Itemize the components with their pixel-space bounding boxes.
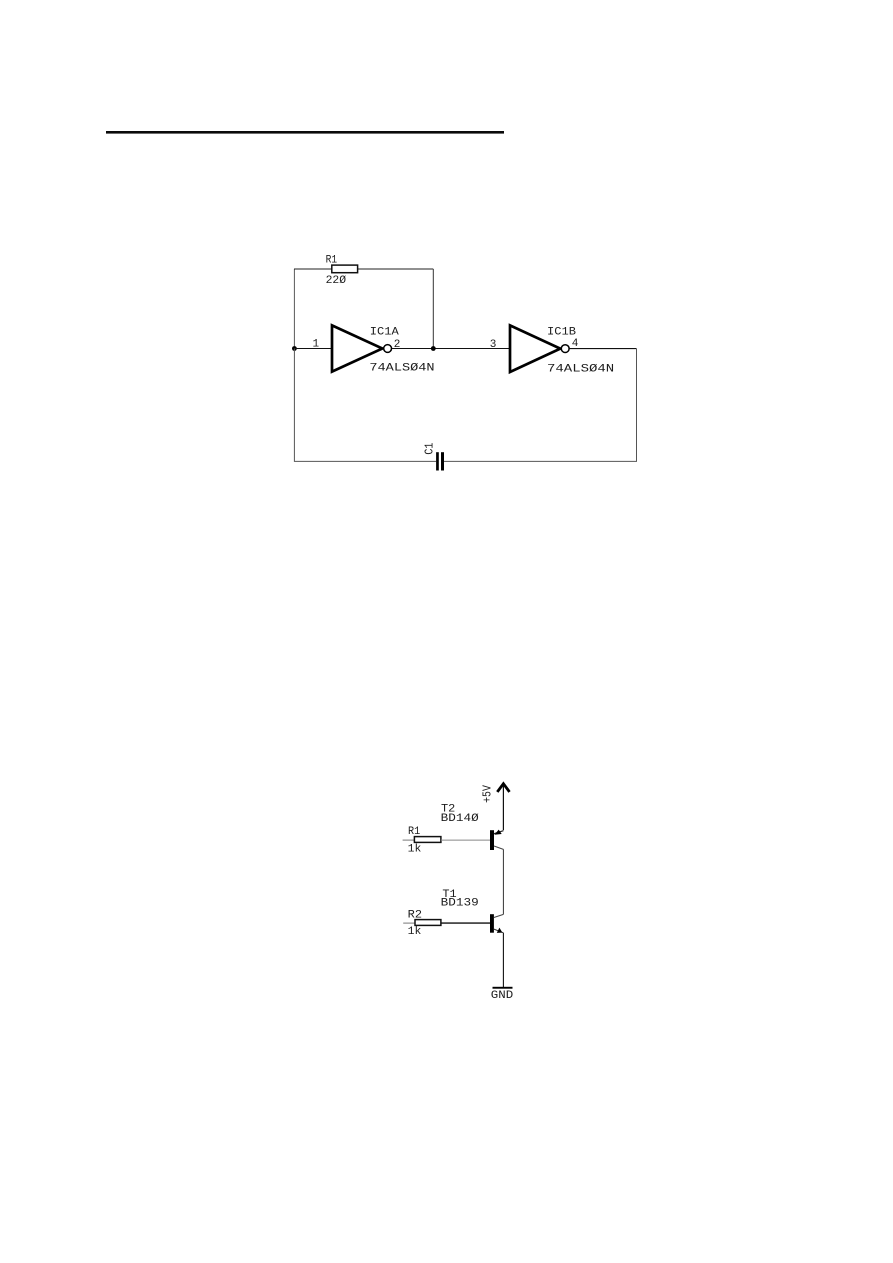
svg-text:1k: 1k: [408, 926, 422, 938]
svg-text:74ALSØ4N: 74ALSØ4N: [547, 364, 614, 376]
wire R2 to T1 base: [441, 922, 490, 924]
op-amp inverter IC1B triangle: [510, 325, 560, 372]
value 1k (R2): [408, 926, 422, 938]
IC1A output bubble: [384, 345, 392, 353]
svg-text:C1: C1: [422, 443, 436, 455]
value 74ALS04N second: [547, 364, 614, 376]
transistor T2 (PNP BD140): [490, 830, 503, 850]
op-amp inverter IC1A triangle: [332, 325, 382, 371]
ground: [493, 987, 513, 989]
label T2: [441, 804, 455, 816]
value BD139: [441, 897, 479, 909]
wire T1 emitter to ground: [502, 933, 504, 987]
pin 1: [313, 338, 320, 350]
svg-text:BD14Ø: BD14Ø: [441, 813, 479, 825]
label +5V rotated: [481, 784, 495, 802]
label IC1B: [547, 327, 576, 339]
wire T2 collector to T1 collector: [502, 849, 504, 914]
svg-text:3: 3: [490, 339, 497, 351]
svg-text:IC1A: IC1A: [370, 327, 399, 339]
svg-text:1k: 1k: [408, 843, 422, 855]
value 220: [326, 275, 347, 287]
label C1 rotated: [422, 443, 436, 455]
wire input to IC1A: [294, 348, 332, 350]
pin 3: [490, 339, 497, 351]
value 74ALS04N: [369, 363, 434, 375]
svg-text:+5V: +5V: [481, 784, 495, 802]
capacitor C1: [436, 452, 444, 470]
svg-text:GND: GND: [491, 990, 514, 1002]
wire right vertical and bottom run to capacitor: [444, 349, 637, 462]
wire bottom run left of capacitor: [294, 349, 436, 462]
node A junction dot (input): [292, 346, 297, 351]
resistor R2: [403, 920, 441, 926]
transistor T1 (NPN BD139): [490, 914, 503, 933]
resistor R1: [332, 265, 358, 273]
label T1: [442, 889, 457, 901]
pin 2: [394, 339, 401, 351]
svg-text:R2: R2: [408, 910, 422, 922]
svg-text:R1: R1: [326, 255, 338, 267]
svg-text:IC1B: IC1B: [547, 327, 576, 339]
wire R1 to T2 base: [441, 839, 490, 841]
svg-text:22Ø: 22Ø: [326, 275, 347, 287]
pin 4: [572, 338, 579, 350]
value 1k: [408, 843, 422, 855]
svg-text:74ALSØ4N: 74ALSØ4N: [369, 363, 434, 375]
label R2: [408, 910, 422, 922]
svg-text:2: 2: [394, 339, 401, 351]
svg-text:BD139: BD139: [441, 897, 479, 909]
wire feedback loop top (left vertical, top run, right vertical): [294, 269, 433, 349]
label GND: [491, 990, 514, 1002]
value BD140: [441, 813, 479, 825]
wire IC1B output: [570, 348, 637, 350]
node B junction dot: [431, 346, 436, 351]
power +5V arrow: [497, 784, 509, 831]
IC1B output bubble: [561, 345, 569, 353]
label R1: [326, 255, 338, 267]
label IC1A: [370, 327, 399, 339]
svg-text:R1: R1: [408, 826, 421, 838]
label R1 (driver): [408, 826, 421, 838]
heading rule: [106, 131, 504, 134]
wire IC1A output to IC1B input: [392, 348, 510, 350]
svg-text:1: 1: [313, 338, 320, 350]
resistor R1 (driver): [403, 837, 441, 843]
